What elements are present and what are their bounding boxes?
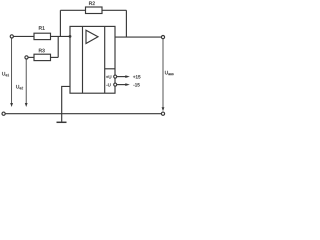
wire top rail left segment [60,9,85,11]
arrowhead -15 [125,83,130,86]
op-amp triangle [86,30,98,43]
terminal input 2 [25,56,28,59]
terminal output [161,36,164,39]
label +15 [133,75,140,78]
label -15 [133,83,139,86]
resistor R2 [86,7,103,14]
wire R2 down to output [125,10,127,37]
arrowhead Ue2 [25,103,28,107]
terminal input 1 [10,35,13,38]
junction dot inverting input [69,35,72,38]
arrowhead +15 [125,75,130,78]
wire op-amp output [115,36,161,38]
pin +U terminal [114,75,117,78]
wire feedback vertical [59,10,61,36]
wire R3 up to summing node [57,36,59,57]
wire R1 to op-amp [51,35,71,37]
wire bottom ground rail [5,113,161,115]
resistor R3 [34,54,51,60]
resistor R1 [34,33,51,39]
label R1 [39,26,45,29]
label Ue1 [2,72,9,76]
arrow voltage Ue1 [11,38,13,105]
ground [57,121,67,123]
terminal ground left [2,112,5,115]
op-amp right strip separator [105,68,115,70]
arrowhead Ue1 [10,103,13,107]
op-amp left pin strip divider [82,26,84,93]
label Ue2 [16,85,23,89]
label Uaus [165,71,174,75]
wire non-inverting input to ground [62,86,70,121]
op-amp U1 box [70,26,115,93]
op-amp right pin strip divider [104,26,106,93]
pin -U terminal [114,83,117,86]
wire -U supply arrow line [117,84,127,86]
label +U [106,75,111,78]
arrowhead Uaus [162,107,165,111]
label -U [106,83,110,86]
wire top rail right segment [102,9,126,11]
label R2 [89,2,95,5]
wire input1 to R1 [14,35,35,37]
wire +U supply arrow line [117,76,127,78]
wire input2 to R3 [28,56,34,58]
wire R3 right [51,56,59,58]
terminal ground right [161,112,164,115]
arrow voltage Ue2 [25,59,27,105]
label R3 [39,49,45,53]
arrow voltage Uaus [162,39,164,109]
